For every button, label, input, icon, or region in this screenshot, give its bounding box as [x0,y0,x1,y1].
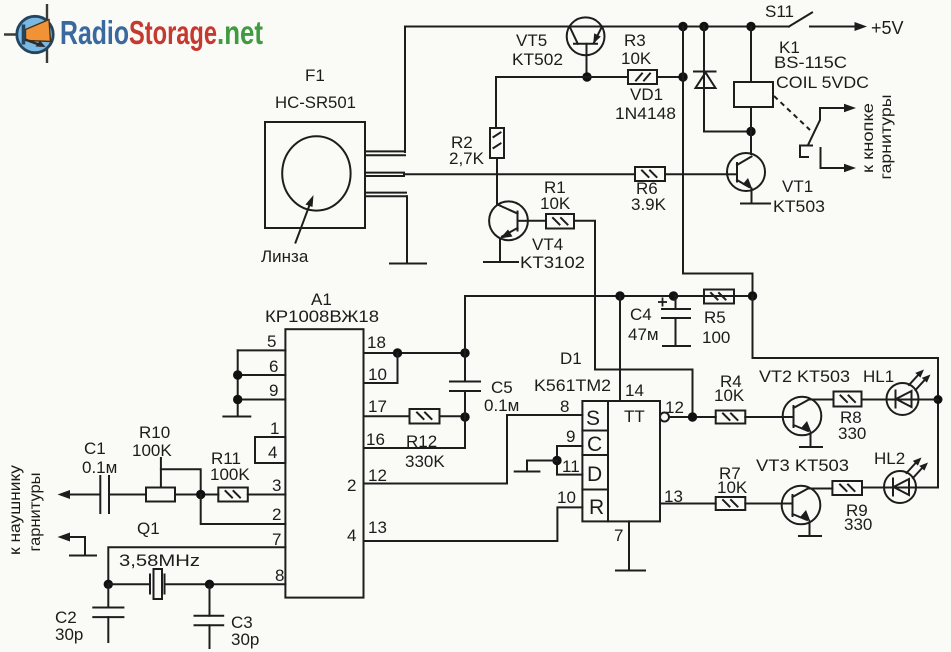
node R3 right [678,72,687,81]
wire R8 to HL1 [862,399,939,401]
ground pin569 bus [223,416,250,418]
+5V arrow [855,22,868,31]
svg-text:11: 11 [562,457,580,476]
svg-text:C: C [587,433,602,456]
wire D1 pin14 [619,296,621,401]
flipflop D1 main box [608,401,660,521]
svg-text:9: 9 [566,427,575,446]
svg-text:0.1м: 0.1м [82,458,117,477]
node K1 bottom [746,127,755,136]
svg-text:R10: R10 [139,423,170,442]
node VT5 base [582,72,591,81]
wire R3 to node [657,76,683,78]
relay K1 coil [734,82,773,107]
svg-text:10K: 10K [717,478,748,497]
transistor VT5 [567,17,605,77]
svg-text:3.9K: 3.9K [631,195,667,214]
svg-text:2,7K: 2,7K [449,149,485,168]
wire F1 pin2 to R6 [404,173,635,175]
D1 R box [582,490,608,522]
resistor R3 [628,70,657,84]
svg-text:13: 13 [664,487,683,506]
transistor VT1 [727,153,765,204]
svg-text:R12: R12 [406,432,437,451]
svg-text:K561TM2: K561TM2 [534,376,611,395]
wire R2 branch [495,77,497,128]
svg-text:Radio: Radio [60,14,129,51]
svg-text:12: 12 [368,466,387,485]
ground C4 [663,345,690,347]
logo circle [17,16,53,52]
headset left contact [800,146,812,158]
svg-text:10: 10 [557,488,576,507]
capacitor C1 [100,476,109,513]
node crystal left [104,580,113,589]
logo horn [26,20,51,42]
wire VT3 collector to R9 [808,488,832,490]
svg-text:R: R [589,496,604,519]
headset contact lever [808,108,820,145]
svg-text:10K: 10K [540,194,571,213]
wire crystal line left [108,583,149,585]
A1 pins 1-4 link box [255,437,285,463]
svg-text:1: 1 [270,419,279,438]
svg-text:4: 4 [347,526,356,545]
LED HL2 [884,458,928,504]
ground F1 [390,263,426,265]
svg-text:S11: S11 [765,2,794,21]
wire C1 to R10 [109,494,146,496]
ground pin11 [515,471,540,473]
node R10 tap [196,490,205,499]
node bus pin6 [233,370,242,379]
svg-text:KT503: KT503 [773,197,825,216]
wire D1 pin13 to R7 [660,503,716,505]
resistor R1 [546,214,574,229]
node crystal right [205,580,214,589]
wire R2 to VT4 [496,158,498,205]
second headphone arrow [65,537,85,556]
dashed link K1 to contact [774,96,810,130]
LED HL1 [887,370,931,416]
resistor R11 [218,488,248,502]
svg-text:VD1: VD1 [630,85,663,104]
F1 lens circle [282,136,350,210]
wire pin12 to R4 [669,416,716,418]
wire R6 to VT1 base [665,173,727,175]
chip A1 box [285,329,363,597]
svg-text:16: 16 [366,430,385,449]
svg-text:8: 8 [275,566,284,585]
wire VT2 collector to R8 [809,399,834,401]
node R12/C5 [460,412,469,421]
logo emitter arrow [25,40,42,46]
logo crosshair horizontal [4,33,25,35]
headset right contact [821,148,850,168]
ground VT3 [799,535,821,537]
wire crystal to A1 pin8 [165,583,286,585]
wire pin11 ground stub [527,461,557,472]
svg-text:HC-SR501: HC-SR501 [275,93,356,112]
svg-text:VT3 KT503: VT3 KT503 [756,456,849,475]
node top rail / VD1 branch [699,22,708,31]
svg-text:VT4: VT4 [532,235,563,254]
svg-text:KT3102: KT3102 [520,253,585,272]
node pin18/C5 [460,348,469,357]
wire VT5 base rail [496,76,628,78]
svg-text:VT2 KT503: VT2 KT503 [759,367,850,386]
wire top +5V rail [405,26,789,28]
headset bottom arrow [844,164,856,173]
wire R12 to C5 node [440,415,466,417]
svg-text:30p: 30p [231,630,259,649]
ground VT4 [484,261,518,263]
wire VT4 base to R1 [528,220,546,222]
svg-text:14: 14 [625,381,644,400]
svg-text:100K: 100K [132,441,172,460]
switch S11 [789,13,812,27]
svg-text:8: 8 [560,397,569,416]
resistor R9 [832,481,862,495]
wire VD1 bottom to K1 bottom node [704,131,751,133]
wire D1 pin7 [628,521,630,570]
ground VT1 [741,203,770,205]
svg-text:ТТ: ТТ [624,407,645,426]
wire A1 pin18 [364,352,466,354]
svg-text:0.1м: 0.1м [484,396,519,415]
node top rail / R3 branch [678,22,687,31]
wire A1 pin9 [238,399,286,401]
svg-text:С5: С5 [491,378,513,397]
resistor R4 [716,411,746,424]
svg-text:Q1: Q1 [137,519,160,538]
transistor VT3 [782,486,821,536]
transistor VT4 [489,201,528,261]
wire R10 to R11 [175,494,218,496]
svg-text:10: 10 [368,365,387,384]
svg-text:BS-115C: BS-115C [774,53,847,72]
svg-text:7: 7 [272,530,281,549]
wire R7 to VT3 [745,503,782,505]
svg-text:COIL 5VDC: COIL 5VDC [776,73,869,92]
resistor R12 [410,409,440,424]
svg-text:KT502: KT502 [512,50,563,69]
svg-text:1N4148: 1N4148 [615,104,676,123]
svg-text:6: 6 [269,357,278,376]
svg-text:30p: 30p [55,625,83,644]
svg-text:КР1008ВЖ18: КР1008ВЖ18 [265,307,379,326]
svg-text:S: S [586,407,600,430]
ground VT2 [800,446,822,448]
bar second arrow [70,555,96,557]
svg-text:2: 2 [272,505,281,524]
wire A1 pin2 [201,495,286,525]
node pin12 feedback [688,412,697,421]
wire R9 to HL2 [862,487,938,489]
node HL1 cathode [934,395,943,404]
wire K1 top [750,27,752,83]
wire K1 bottom [750,107,752,154]
svg-text:3,58MHz: 3,58MHz [119,551,200,570]
F1 pin 3 [365,192,406,194]
svg-text:к кнопке: к кнопке [860,103,877,173]
diode VD1 [694,27,716,132]
svg-text:330: 330 [838,424,866,443]
svg-text:R3: R3 [624,31,646,50]
svg-text:VT5: VT5 [516,31,547,50]
wire C1 arrow (to headphones) [65,494,100,496]
wire A1 pin6 [238,374,286,376]
wire R4 to VT2 [745,416,783,418]
capacitor C2 [93,584,123,642]
svg-text:4: 4 [268,443,277,462]
F1 pin 2 [365,172,404,174]
wire R1 to pin12 node [574,221,693,417]
wire A1 pin10 [364,353,398,383]
svg-text:13: 13 [368,518,387,537]
D1 D box [582,455,608,490]
node C4 rail [669,291,678,300]
svg-text:330: 330 [844,515,872,534]
svg-text:9: 9 [269,381,278,400]
wire vertical x683 down [683,27,753,297]
D1 pin12 bubble [660,413,669,422]
node bus pin9 [233,395,242,404]
D1 S box [582,401,608,431]
wire LED top rail [753,296,939,488]
wire pin5-6-9 bus [237,350,239,416]
svg-text:C4: C4 [630,305,652,324]
svg-text:HL1: HL1 [863,367,894,386]
svg-text:10K: 10K [621,49,652,68]
logo crosshair vertical [46,4,48,63]
wire left vertical from top rail to F1 pin1 [404,27,406,153]
svg-text:VT1: VT1 [782,177,813,196]
svg-text:5: 5 [267,332,276,351]
svg-text:R5: R5 [704,308,726,327]
capacitor C5 [364,296,481,448]
svg-text:D: D [587,463,602,486]
node pin9-11 [552,456,561,465]
main mid rail y296 [465,295,753,297]
node pin18/pin10 [393,348,402,357]
svg-text:D1: D1 [560,349,582,368]
node R5 right rail [748,291,757,300]
svg-text:100: 100 [702,328,730,347]
resistor R7 [716,497,746,510]
svg-text:Линза: Линза [261,247,309,266]
svg-text:+5V: +5V [871,18,904,38]
svg-text:.net: .net [217,14,263,51]
F1 pin 1 [365,150,405,152]
resistor R6 [635,167,665,181]
svg-text:17: 17 [368,397,387,416]
node top rail / K1 branch [746,22,755,31]
wire D1 pin9 C input [557,446,582,475]
svg-text:HL2: HL2 [874,449,905,468]
D1 C box [582,431,608,456]
wire A1 pin17 [364,415,410,417]
sensor F1 box [265,122,365,228]
svg-text:47м: 47м [628,325,659,344]
svg-text:гарнитуры: гарнитуры [27,473,44,552]
svg-text:2: 2 [347,476,356,495]
node pin14 rail [615,291,624,300]
svg-text:гарнитуры: гарнитуры [878,95,895,180]
svg-text:100K: 100K [210,465,250,484]
capacitor C3 [195,584,224,648]
wire F1 pin3 to ground [406,196,408,263]
headset contact top arrow [820,107,849,109]
crystal Q1 [150,569,165,599]
svg-text:С1: С1 [84,439,106,458]
ground D1 pin7 [616,570,645,572]
svg-text:F1: F1 [305,66,325,85]
transistor VT2 [783,397,822,447]
wire A1 pin4out to D1 R pin10 [364,507,583,541]
resistor R5 [704,290,734,304]
svg-text:10K: 10K [714,386,745,405]
resistor R8 [834,392,862,407]
svg-text:3: 3 [272,476,281,495]
svg-text:7: 7 [614,526,623,545]
lens arrow [296,203,311,243]
wire A1 pin5 [238,349,286,351]
logo base bar [22,25,26,45]
svg-text:к наушнику: к наушнику [7,465,24,555]
svg-text:12: 12 [665,398,684,417]
svg-text:18: 18 [367,333,386,352]
svg-text:Storage: Storage [129,14,217,51]
logo [4,4,263,63]
svg-text:330K: 330K [405,452,445,471]
resistor R2 [490,128,504,158]
wire A1 pin7 [108,547,285,584]
wire R11 to A1 pin3 [248,494,286,496]
potentiometer R10 [146,458,201,502]
capacitor C4 [658,296,690,346]
wire A1 pin2out to D1 S pin8 [364,415,583,484]
